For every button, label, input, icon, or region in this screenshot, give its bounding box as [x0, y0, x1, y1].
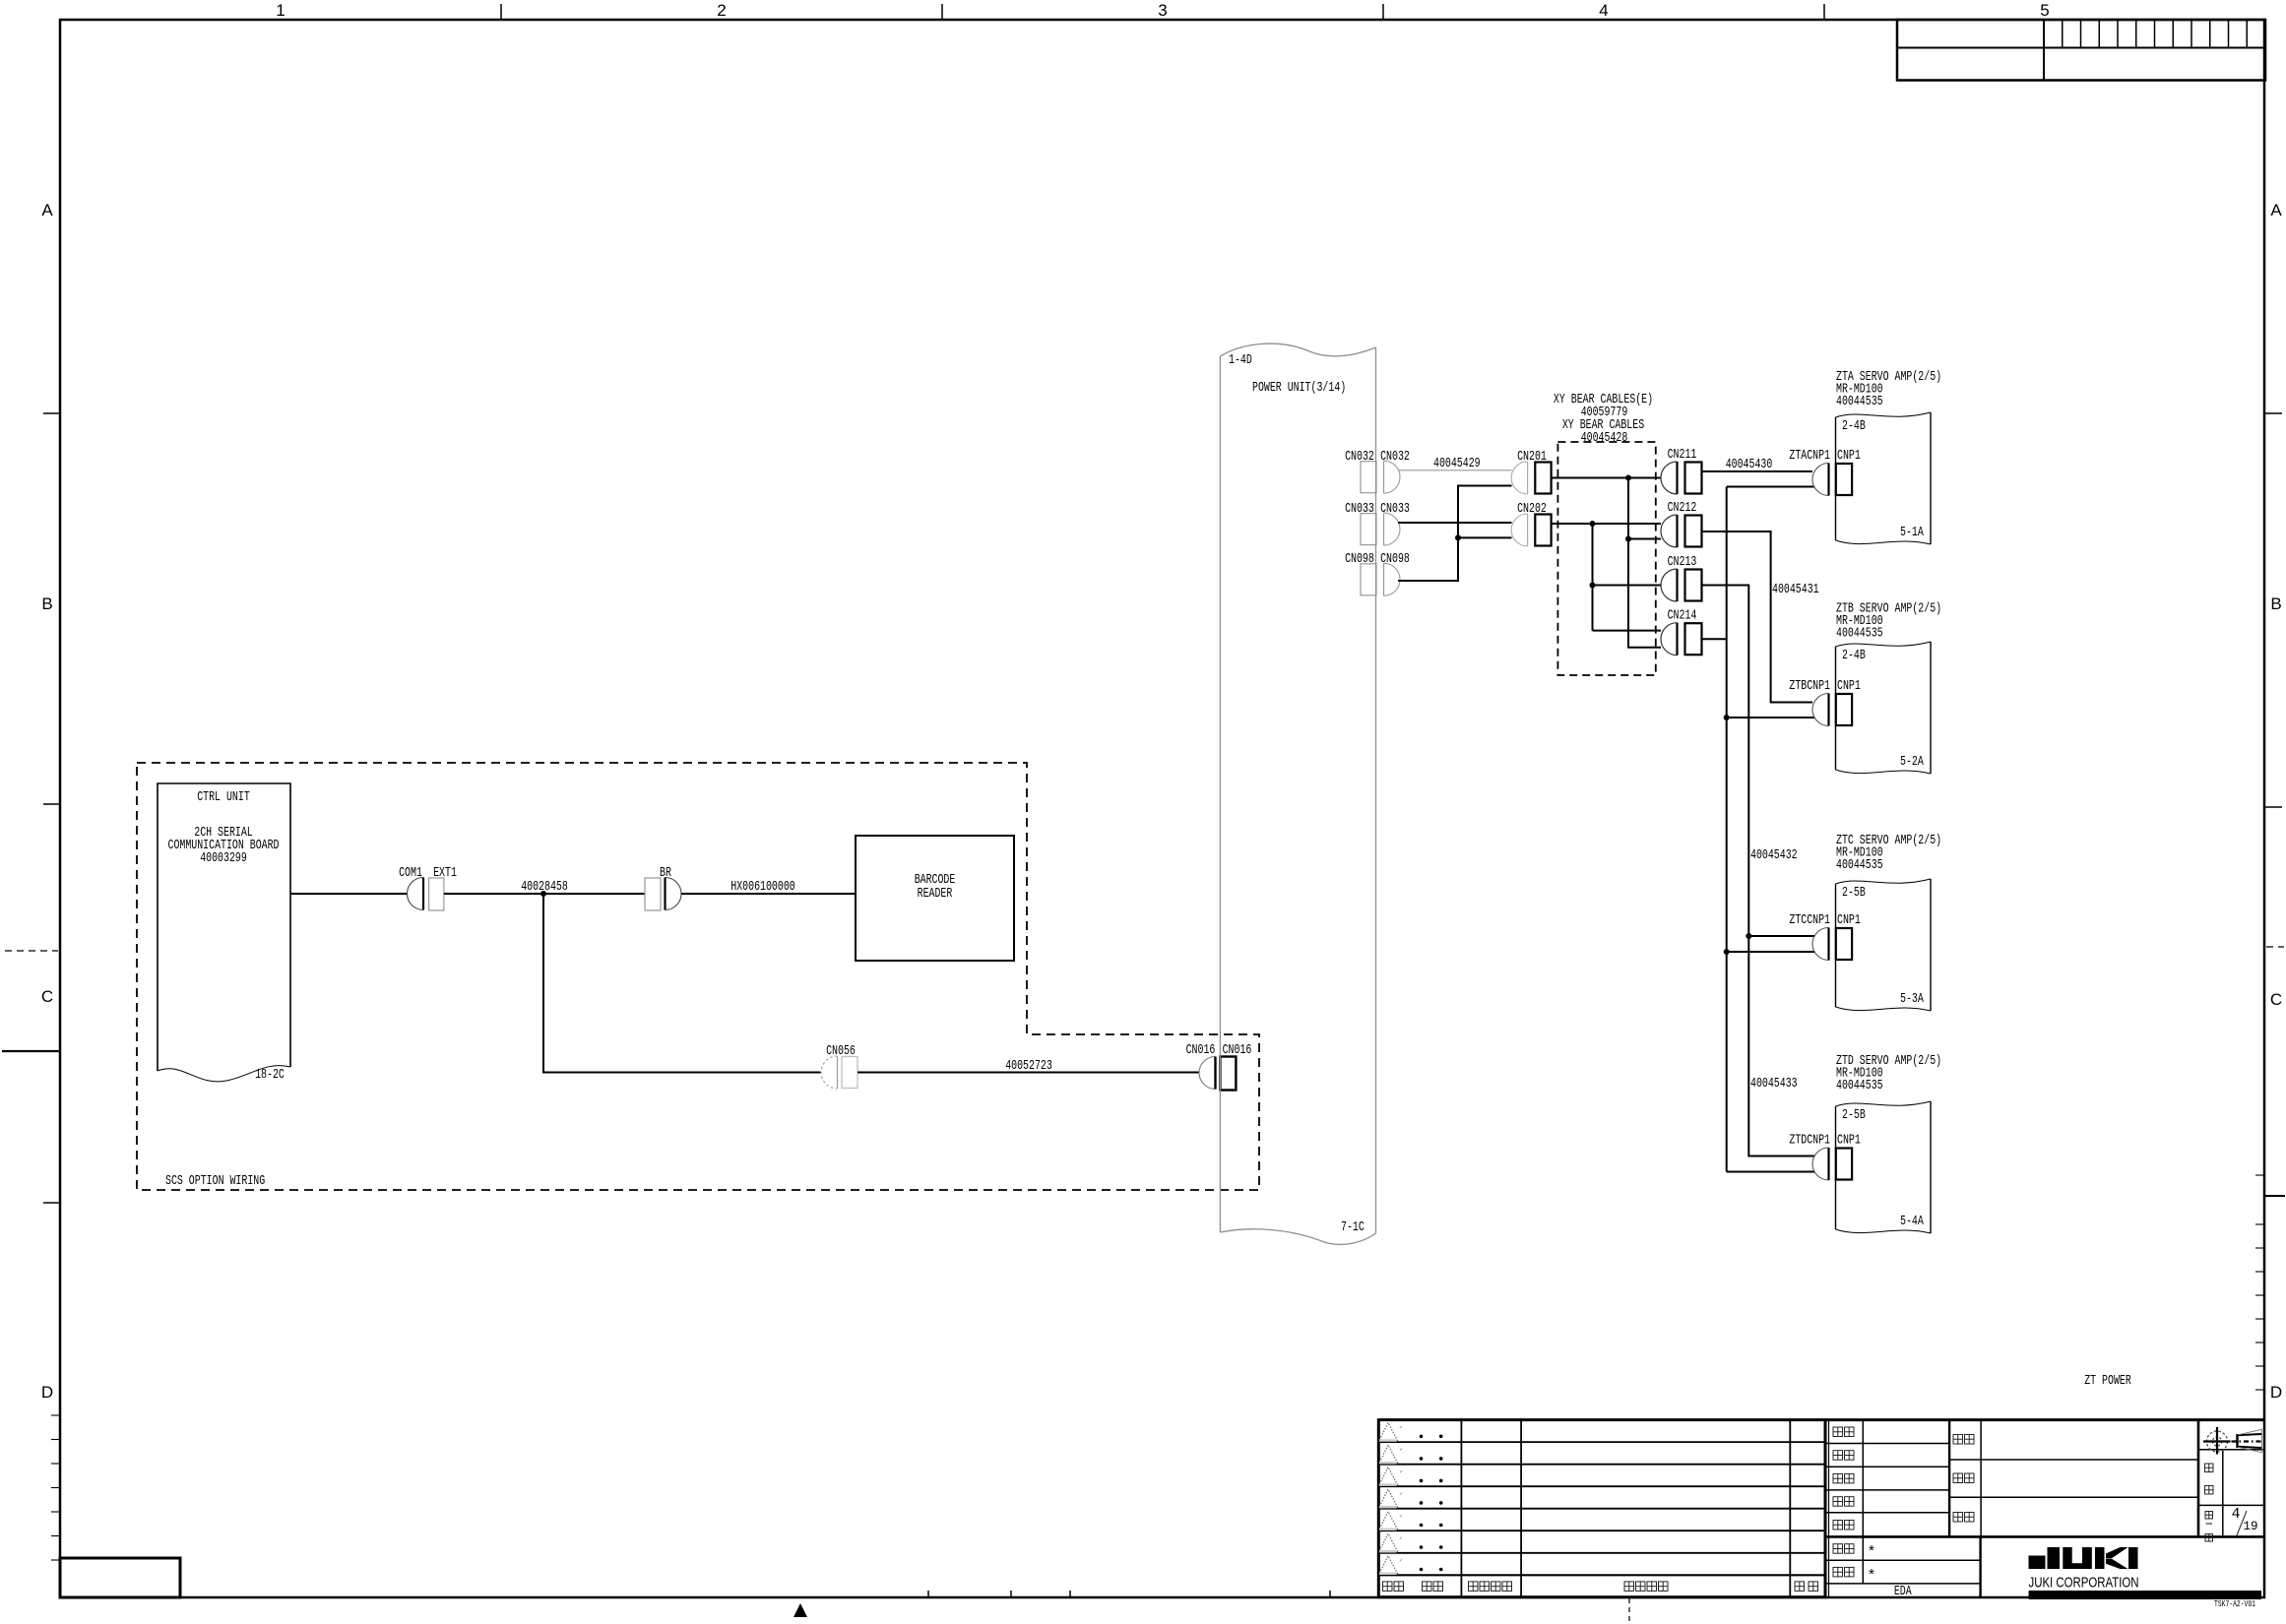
microfilm corner box bottom-left — [60, 1558, 180, 1597]
connector CN213 receptacle — [1685, 570, 1702, 601]
connector CN214 receptacle — [1685, 623, 1702, 655]
connector CN033 plug — [1384, 513, 1401, 545]
svg-text:5-4A: 5-4A — [1900, 1214, 1924, 1229]
svg-text:CN032: CN032 — [1345, 449, 1374, 465]
junction branch to CN213 — [1590, 583, 1596, 589]
label shakudo scale — [2205, 1464, 2214, 1472]
svg-text:18-2C: 18-2C — [255, 1067, 285, 1083]
dashed fold mark below bottom border — [1628, 1598, 1630, 1624]
connector CN032 plug — [1384, 461, 1401, 493]
connector CNP1 receptacle — [1836, 1149, 1852, 1180]
svg-text:CN098: CN098 — [1380, 551, 1410, 567]
connector CN056 plug — [821, 1056, 838, 1089]
svg-text:B: B — [2270, 594, 2281, 613]
svg-text:EXT1: EXT1 — [433, 865, 457, 881]
connector BR plug — [666, 878, 682, 910]
connector CN032 receptacle on power unit — [1361, 462, 1376, 493]
column tick marks top border — [500, 4, 502, 20]
svg-text:1-4D: 1-4D — [1229, 352, 1252, 368]
svg-text:CNP1: CNP1 — [1837, 448, 1861, 464]
connector CN202 receptacle — [1535, 515, 1551, 546]
wire CN214 output to trunk — [1702, 638, 1727, 640]
fold ticks bottom border — [927, 1591, 929, 1597]
block ZTC SERVO AMP MR-MD100 — [1835, 884, 1837, 1007]
svg-text:2-5B: 2-5B — [1842, 885, 1866, 901]
svg-text:COM1: COM1 — [399, 865, 422, 881]
svg-text:40045430: 40045430 — [1726, 457, 1773, 472]
svg-text:POWER UNIT(3/14): POWER UNIT(3/14) — [1252, 380, 1346, 396]
svg-text:CTRL UNIT: CTRL UNIT — [197, 789, 250, 805]
fold mark dashed left margin — [5, 950, 58, 952]
connector CNP1 receptacle — [1836, 464, 1852, 495]
svg-text:D: D — [41, 1383, 53, 1402]
svg-text:40045429: 40045429 — [1433, 456, 1481, 471]
svg-text:ZTACNP1: ZTACNP1 — [1789, 448, 1830, 464]
wire trunk to ZTDCNP1 lower — [1727, 1171, 1814, 1173]
svg-text:C: C — [41, 987, 53, 1006]
svg-text:CN032: CN032 — [1380, 449, 1410, 465]
svg-text:READER: READER — [918, 886, 953, 902]
block POWER UNIT (3/14) — [1220, 344, 1375, 1244]
svg-text:5-2A: 5-2A — [1900, 754, 1924, 770]
svg-text:A: A — [41, 201, 53, 219]
svg-text:40044535: 40044535 — [1836, 1078, 1883, 1093]
connector CNP1 receptacle — [1836, 694, 1852, 725]
wire branch to CN212 lower — [1628, 538, 1661, 540]
svg-text:40044535: 40044535 — [1836, 626, 1883, 642]
wire CN202 to CN212 — [1552, 523, 1661, 525]
connector CN211 receptacle — [1685, 463, 1702, 494]
wire drop from junction to CN056 — [543, 894, 821, 1073]
connector ZTACNP1 plug — [1812, 464, 1829, 496]
junction CN201 line to branch column — [1625, 475, 1631, 481]
JUKI logo — [2029, 1547, 2138, 1569]
wire CN032 to CN201 cable 40045429 — [1398, 469, 1512, 471]
scale ruler ticks left border — [51, 1414, 60, 1416]
junction 40045432 to ZTCCNP1 upper — [1746, 933, 1751, 939]
dashed boundary XY BEAR CABLES — [1557, 442, 1655, 675]
revision table headers kigou/hiduke/bangou/kiji/tantou — [1383, 1582, 1393, 1592]
connector CN202 plug — [1511, 514, 1528, 546]
connector CN211 plug — [1661, 462, 1678, 494]
block BARCODE READER — [856, 836, 1014, 961]
wire trunk to ZTBCNP1 lower — [1727, 717, 1814, 718]
svg-text:CNP1: CNP1 — [1837, 1133, 1861, 1149]
trunk wire vertical x1753 — [1726, 487, 1728, 1172]
branch wire vertical x1617 — [1593, 524, 1662, 631]
svg-text:CN211: CN211 — [1668, 447, 1697, 463]
block ZTB SERVO AMP MR-MD100 — [1835, 647, 1837, 770]
svg-text:CNP1: CNP1 — [1837, 912, 1861, 928]
JUKI logo underline bar — [2029, 1591, 2261, 1599]
svg-text:40052723: 40052723 — [1005, 1058, 1052, 1074]
block ZTD SERVO AMP MR-MD100 — [1835, 1106, 1837, 1229]
svg-text:5-3A: 5-3A — [1900, 991, 1924, 1007]
svg-text:A: A — [2270, 201, 2282, 219]
connector CN201 receptacle — [1535, 463, 1551, 494]
svg-text:5-1A: 5-1A — [1900, 525, 1924, 540]
connector COM1 plug — [408, 878, 424, 910]
wire trunk to ZTCCNP1 lower — [1727, 951, 1814, 953]
wire CN033 to CN202 — [1398, 522, 1512, 524]
svg-text:*: * — [1867, 1544, 1875, 1561]
fold mark dashed right margin — [2266, 946, 2284, 948]
svg-text:ZTDCNP1: ZTDCNP1 — [1789, 1133, 1830, 1149]
connector CN201 plug — [1511, 462, 1528, 494]
wire CN213 to ZTCCNP1 cable 40045432 — [1702, 586, 1815, 1156]
dashed boundary SCS OPTION WIRING group — [137, 763, 1259, 1190]
svg-text:ZT POWER: ZT POWER — [2084, 1373, 2131, 1389]
svg-text:C: C — [2270, 990, 2282, 1009]
approval table shounin/kenzu/sekkei/seizu/sakusei — [1824, 1420, 1827, 1597]
wire EXT1 to BR cable 40028458 — [444, 893, 645, 895]
connector CNP1 receptacle — [1836, 928, 1852, 960]
svg-text:40045433: 40045433 — [1750, 1076, 1798, 1092]
wire branch to ZTCCNP1 upper — [1748, 935, 1814, 937]
junction CN202 line to branch column — [1590, 521, 1596, 527]
revision triangles and date dots — [1379, 1423, 1398, 1441]
wire BR to BARCODE READER cable HX006100000 — [681, 893, 856, 895]
top-right revision reference table — [1897, 20, 2265, 81]
connector BR receptacle — [645, 878, 661, 910]
svg-text:BR: BR — [660, 865, 671, 881]
wire CN056 to CN016 cable 40052723 — [857, 1072, 1199, 1074]
svg-text:ZTCCNP1: ZTCCNP1 — [1789, 912, 1830, 928]
wire CN212 to ZTBCNP1 cable 40045431 — [1702, 531, 1813, 703]
svg-text:1: 1 — [276, 1, 285, 20]
svg-text:TSK7-A2-V01: TSK7-A2-V01 — [2214, 1598, 2255, 1609]
wire junction to CN202 lower — [1458, 536, 1512, 538]
block CTRL UNIT 2CH serial communication board — [158, 783, 290, 1071]
label page vertical — [2205, 1512, 2213, 1520]
block ZTA SERVO AMP MR-MD100 — [1835, 417, 1837, 540]
connector CN033 receptacle on power unit — [1361, 514, 1376, 545]
svg-text:40045428: 40045428 — [1581, 430, 1628, 446]
svg-text:*: * — [1867, 1568, 1875, 1585]
svg-text:CN016: CN016 — [1223, 1042, 1252, 1058]
svg-text:EDA: EDA — [1894, 1584, 1912, 1599]
connector CN016 plug — [1199, 1057, 1216, 1090]
svg-text:19: 19 — [2243, 1520, 2257, 1533]
svg-text:CN212: CN212 — [1668, 500, 1697, 516]
svg-text:CN016: CN016 — [1186, 1042, 1216, 1058]
svg-text:D: D — [2270, 1383, 2282, 1402]
svg-text:CN033: CN033 — [1380, 501, 1410, 517]
svg-text:4: 4 — [1599, 1, 1608, 20]
connector EXT1 receptacle — [429, 878, 444, 910]
scale page column shakudo/page — [2198, 1449, 2265, 1451]
svg-text:HX006100000: HX006100000 — [730, 879, 795, 895]
svg-text:4: 4 — [2231, 1506, 2240, 1523]
junction trunk to ZTCCNP1 — [1724, 949, 1730, 955]
connector ZTCCNP1 plug — [1812, 928, 1829, 961]
wire ZTACNP1 lower entry — [1727, 486, 1814, 488]
connector CN213 plug — [1661, 569, 1678, 601]
wire branch to CN213 — [1593, 585, 1662, 587]
top-right table small cells — [2062, 20, 2064, 48]
wire CTRL UNIT to COM1 — [290, 893, 408, 895]
connector CN212 receptacle — [1685, 516, 1702, 547]
svg-text:CNP1: CNP1 — [1837, 678, 1861, 694]
svg-text:CN214: CN214 — [1668, 608, 1697, 624]
svg-text:40044535: 40044535 — [1836, 394, 1883, 409]
scale ruler ticks right border — [2255, 1174, 2265, 1176]
wire CN098 branch — [1398, 486, 1512, 582]
connector ZTBCNP1 plug — [1812, 694, 1829, 726]
svg-text:CN033: CN033 — [1345, 501, 1374, 517]
connector CN098 plug — [1384, 563, 1401, 595]
connector CN056 receptacle — [842, 1057, 857, 1089]
svg-text:SCS OPTION WIRING: SCS OPTION WIRING — [165, 1173, 265, 1189]
junction CN098 branch to CN202 — [1455, 534, 1461, 540]
branch wire vertical x1654 — [1628, 478, 1661, 648]
wire CN201 to CN211 — [1552, 477, 1661, 479]
connector CN016 receptacle on power unit — [1220, 1057, 1236, 1091]
junction node at 40028458 split — [540, 891, 546, 897]
svg-text:B: B — [41, 594, 52, 613]
junction branch to CN212 lower — [1625, 536, 1631, 542]
svg-text:JUKI CORPORATION: JUKI CORPORATION — [2029, 1576, 2139, 1592]
svg-text:7-1C: 7-1C — [1341, 1219, 1365, 1235]
connector ZTDCNP1 plug — [1812, 1148, 1829, 1180]
svg-text:CN098: CN098 — [1345, 551, 1374, 567]
junction trunk to ZTBCNP1 — [1724, 715, 1730, 720]
connector CN214 plug — [1661, 623, 1678, 656]
type part name table katashiki/hinban/hinmei — [2197, 1420, 2200, 1537]
svg-text:40045431: 40045431 — [1772, 582, 1819, 597]
svg-text:CN213: CN213 — [1668, 554, 1697, 570]
storage and similar rows hokan/ruiji — [1825, 1559, 1981, 1561]
svg-text:3: 3 — [1158, 1, 1167, 20]
connector CN098 receptacle on power unit — [1361, 564, 1376, 595]
svg-text:2-4B: 2-4B — [1842, 648, 1866, 663]
svg-text:40044535: 40044535 — [1836, 857, 1883, 873]
svg-text:5: 5 — [2040, 1, 2049, 20]
connector CN212 plug — [1661, 515, 1678, 547]
center triangle marker below bottom border — [794, 1603, 807, 1617]
svg-text:40003299: 40003299 — [200, 850, 247, 866]
svg-text:2-5B: 2-5B — [1842, 1107, 1866, 1123]
revision history table — [1378, 1420, 1825, 1597]
fold mark solid left margin — [2, 1050, 60, 1052]
svg-text:40045432: 40045432 — [1750, 847, 1798, 863]
svg-text:2-4B: 2-4B — [1842, 418, 1866, 434]
zone boundary ticks left border — [43, 412, 60, 414]
zone boundary ticks right border — [2265, 412, 2282, 414]
wire CN211 to ZTACNP1 cable 40045430 — [1702, 470, 1813, 472]
svg-text:2: 2 — [717, 1, 726, 20]
svg-text:ZTBCNP1: ZTBCNP1 — [1789, 678, 1830, 694]
projection method symbol — [2203, 1427, 2265, 1455]
